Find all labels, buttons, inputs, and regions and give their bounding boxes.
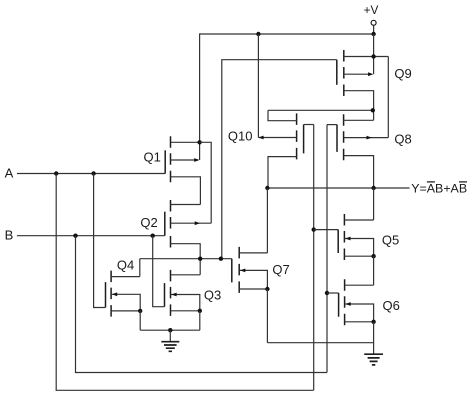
transistor Q3: [170, 270, 172, 316]
node B tap 1: [73, 234, 77, 238]
wire Q7 source down to ground wire: [266, 289, 268, 343]
wire Q3 source to ground line: [199, 311, 201, 330]
transistor Q2: [170, 200, 172, 248]
node Q3 source junction: [198, 309, 202, 313]
transistor Q10: [296, 113, 298, 159]
wire Q10 gate loop: [304, 124, 314, 126]
wire B tap1 wrap-around (bottom inner): [76, 236, 328, 373]
svg-text:Q9: Q9: [394, 66, 411, 81]
node rail to Q10 body tap: [256, 32, 260, 36]
transistor Q1: [170, 136, 172, 182]
wire Q3 gate lead from B: [153, 236, 165, 307]
overbar on first A: [427, 181, 435, 183]
ground line (left): [140, 329, 200, 331]
node Y output left junction: [265, 186, 269, 190]
svg-text:Y=AB+AB: Y=AB+AB: [411, 181, 467, 195]
output line Y: [267, 187, 409, 189]
wire rail tap down to Q10 body: [257, 34, 259, 138]
input line B: [17, 235, 165, 237]
wire Q7 to right ground: [267, 342, 373, 344]
svg-text:A: A: [5, 165, 14, 180]
svg-text:Q2: Q2: [140, 215, 157, 230]
overbar on last B: [459, 181, 467, 183]
node Q4 source junction: [138, 309, 142, 313]
node line junction at Q2/Q3 column: [198, 257, 202, 261]
node A tap 2: [91, 171, 95, 175]
internal node line (NAND node): [140, 258, 232, 260]
transistor Q8: [343, 114, 345, 160]
node Q1 drain junction: [197, 140, 201, 144]
wire Q1 drain over to Q2 body tie: [200, 142, 212, 223]
wire Q10 drain to Q8 column: [268, 109, 373, 111]
ground (right): [364, 354, 383, 365]
node Q6 source junction: [371, 320, 375, 324]
wire A-net riser (right): [313, 125, 315, 391]
power terminal +V: [371, 20, 376, 25]
node Q7 source junction: [265, 287, 269, 291]
transistor Q9: [343, 50, 345, 96]
wire Q5 gate lead: [314, 229, 339, 231]
wire +V down to Q9 drain: [373, 34, 375, 57]
wire Q4 source to ground line: [139, 311, 141, 330]
wire Q9 gate lead: [222, 60, 337, 259]
transistor Q6: [344, 279, 346, 325]
ground (left): [169, 330, 171, 341]
node Q6 gate tap: [325, 291, 329, 295]
svg-text:+V: +V: [364, 3, 379, 17]
svg-text:Q6: Q6: [383, 298, 400, 313]
node B tap 2: [151, 234, 155, 238]
wire +V rail: [200, 34, 374, 142]
svg-text:Q10: Q10: [228, 128, 253, 143]
node Y output right junction: [371, 186, 375, 190]
node Q5 source junction: [371, 254, 375, 258]
wire Q6 source to ground: [373, 322, 375, 354]
wire A tap1 wrap-around (bottom outer): [56, 174, 314, 391]
wire Q4 gate lead from A: [94, 174, 106, 308]
wire Q6 gate lead: [327, 292, 339, 294]
svg-text:Q8: Q8: [394, 132, 411, 147]
svg-text:Q5: Q5: [382, 232, 399, 247]
svg-text:Q4: Q4: [117, 258, 134, 273]
node Q10 drain tie junction: [371, 108, 375, 112]
transistor Q4: [110, 271, 112, 317]
wire B-net riser (right): [326, 125, 328, 373]
node A tap 1: [54, 171, 58, 175]
wire Q5 source to Q6 drain: [373, 256, 375, 285]
svg-text:Q7: Q7: [272, 262, 289, 277]
input line A: [17, 173, 165, 175]
node Q5 gate tap: [312, 227, 316, 231]
transistor Q5: [343, 214, 345, 260]
wire Q8 gate loop: [327, 124, 337, 126]
node line junction at Q9 gate riser: [219, 257, 223, 261]
svg-text:Q3: Q3: [204, 287, 221, 302]
node Q9 drain junction: [371, 54, 375, 58]
node ground line junction: [168, 328, 172, 332]
wire Q9 right bracket to Q8 body: [387, 57, 389, 138]
transistor Q7: [238, 247, 240, 293]
node +V stem junction: [371, 32, 375, 36]
svg-text:Q1: Q1: [144, 149, 161, 164]
svg-text:B: B: [5, 228, 14, 243]
